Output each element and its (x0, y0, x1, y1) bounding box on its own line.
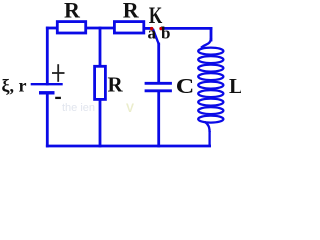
wire from contact b to top-right corner (162, 27, 211, 30)
switch contact dot b (159, 27, 162, 30)
svg-text:L: L (229, 74, 241, 98)
svg-text:C: C (176, 75, 194, 98)
battery plus sign (52, 64, 65, 82)
wire left vertical top (battery branch upper) (46, 28, 49, 84)
svg-text:R: R (123, 0, 140, 23)
wire R2 to switch contact a (145, 27, 151, 30)
wire capacitor to bottom (157, 91, 160, 146)
capacitor C top plate (146, 82, 171, 85)
bottom wire (47, 145, 209, 148)
svg-text:R: R (64, 0, 81, 23)
switch K blade (153, 30, 158, 44)
node junction middle branch (99, 28, 102, 66)
svg-text:b: b (161, 24, 170, 43)
wire blade down to capacitor (157, 44, 160, 83)
svg-text:V: V (126, 101, 134, 115)
wire top from left corner to resistor R1 (47, 27, 57, 30)
resistor R1 (top-left box) (57, 22, 85, 33)
wire R3 to bottom (99, 100, 102, 146)
battery minus sign (55, 97, 61, 99)
capacitor C bottom plate (146, 89, 171, 92)
label C (176, 75, 194, 98)
battery long plate (+) (31, 83, 63, 85)
svg-text:ξ, r: ξ, r (2, 76, 27, 97)
svg-text:R: R (108, 73, 124, 97)
wire R1 to junction to R2 (86, 27, 114, 30)
battery short plate (-) (39, 91, 55, 94)
label K (149, 4, 163, 29)
battery: wire below to bottom (46, 95, 49, 147)
resistor R3 (middle vertical box) (95, 66, 106, 99)
inductor L coil loops (198, 38, 223, 146)
wire top-right corner down to coil (210, 28, 213, 40)
resistor R2 (top-right box) (114, 22, 143, 33)
svg-text:a: a (148, 24, 157, 43)
svg-text:the ien: the ien (62, 102, 95, 114)
switch contact dot a (150, 27, 153, 30)
